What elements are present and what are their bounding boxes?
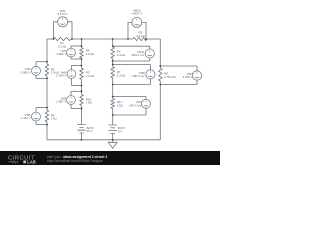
svg-text:3.878 V: 3.878 V bbox=[183, 75, 193, 79]
wire top rail bbox=[47, 38, 160, 40]
resistor R11 bbox=[111, 99, 124, 109]
svg-text:2.2 kΩ: 2.2 kΩ bbox=[136, 34, 145, 38]
voltmeter VM4 bbox=[160, 66, 201, 85]
svg-text:1 kΩ: 1 kΩ bbox=[51, 117, 58, 121]
junction top rail / VM10 left bbox=[127, 38, 129, 40]
svg-text:-2.887 V: -2.887 V bbox=[55, 100, 66, 104]
footer logo CircuitLab bbox=[8, 155, 36, 164]
resistor R10 bbox=[80, 95, 93, 106]
junction column A / VM9 top bbox=[81, 90, 83, 92]
junction column B / VM3 top bbox=[112, 96, 114, 98]
resistor R5 bbox=[45, 64, 60, 76]
junction left rail / VM2 top bbox=[46, 61, 48, 63]
voltmeter VM11 bbox=[113, 46, 155, 61]
svg-text:LAB: LAB bbox=[27, 159, 36, 164]
junction top rail / column B bbox=[112, 38, 114, 40]
resistor R2 bbox=[133, 31, 147, 41]
junction column A / VM9 bottom bbox=[81, 108, 83, 110]
svg-text:-4.897 V: -4.897 V bbox=[131, 12, 142, 16]
voltmeter VM6 bbox=[55, 66, 81, 86]
svg-text:9 V: 9 V bbox=[118, 129, 122, 133]
junction bottom rail / ground bbox=[112, 139, 114, 141]
svg-text:2.2 kΩ: 2.2 kΩ bbox=[86, 74, 95, 78]
junction top rail / column A bbox=[81, 38, 83, 40]
svg-text:2.751 kΩ: 2.751 kΩ bbox=[164, 75, 176, 79]
svg-text:1 kΩ: 1 kΩ bbox=[86, 101, 93, 105]
wire bottom rail bbox=[47, 139, 160, 141]
svg-text:-843.4 mV: -843.4 mV bbox=[131, 53, 144, 57]
voltmeter VM8 bbox=[113, 64, 155, 84]
resistor R9 bbox=[45, 110, 57, 122]
junction top rail / VM10 right bbox=[145, 38, 147, 40]
junction column B / VM11 bottom bbox=[112, 60, 114, 62]
svg-text:1.9 kΩ: 1.9 kΩ bbox=[117, 53, 126, 57]
svg-text:2.2 kΩ: 2.2 kΩ bbox=[58, 44, 67, 48]
svg-text:1 kΩ: 1 kΩ bbox=[117, 103, 124, 107]
junction column A / VM6 top bbox=[81, 65, 83, 67]
junction bottom rail / BAT3 bbox=[81, 139, 83, 141]
voltmeter VM2 bbox=[21, 62, 47, 79]
wire column A branch bbox=[81, 39, 83, 140]
junction left rail / VM5 top bbox=[46, 107, 48, 109]
junction top rail / VM1 right bbox=[71, 38, 73, 40]
junction top rail / VM1 left bbox=[53, 38, 55, 40]
junction column A / VM7 bottom bbox=[81, 58, 83, 60]
svg-text:1.442 V: 1.442 V bbox=[21, 116, 31, 120]
ground bbox=[108, 140, 117, 149]
battery BAT4 bbox=[109, 125, 126, 135]
voltmeter VM5 bbox=[21, 108, 47, 125]
svg-text:-4.802 V: -4.802 V bbox=[55, 52, 66, 56]
voltmeter VM10 bbox=[128, 8, 146, 39]
svg-text:http://circuitlab.com/c95icfv7: http://circuitlab.com/c95icfv7wqqua bbox=[47, 159, 103, 163]
svg-text:1.9 kΩ: 1.9 kΩ bbox=[86, 52, 95, 56]
svg-text:-0.634 V: -0.634 V bbox=[55, 74, 66, 78]
junction column B / VM8 bottom bbox=[112, 84, 114, 86]
voltmeter VM1 bbox=[54, 9, 73, 39]
voltmeter VM7 bbox=[55, 46, 81, 59]
wire right rail bbox=[159, 39, 161, 140]
resistor R1 bbox=[53, 37, 71, 48]
resistor R8 bbox=[159, 68, 177, 81]
voltmeter VM9 bbox=[55, 91, 81, 108]
resistor R7 bbox=[111, 67, 126, 79]
footer text bbox=[47, 155, 107, 163]
svg-text:2.2 kΩ: 2.2 kΩ bbox=[117, 73, 126, 77]
junction column A / VM7 top bbox=[81, 45, 83, 47]
footer bar bbox=[0, 151, 220, 165]
wire left rail bbox=[46, 39, 48, 140]
junction column B / VM11 top bbox=[112, 45, 114, 47]
svg-text:20 V: 20 V bbox=[87, 129, 93, 133]
resistor R3 bbox=[80, 68, 95, 80]
resistor R6 bbox=[80, 48, 95, 59]
junction column B / VM8 top bbox=[112, 64, 114, 66]
junction right rail / VM4 bottom bbox=[159, 84, 161, 86]
svg-text:2.086 V: 2.086 V bbox=[21, 70, 31, 74]
battery BAT3 bbox=[77, 124, 94, 135]
wire column B branch bbox=[112, 39, 114, 140]
junction right rail / VM4 top bbox=[159, 65, 161, 67]
svg-text:-786.4 mV: -786.4 mV bbox=[131, 74, 144, 78]
junction left rail / VM5 bottom bbox=[46, 124, 48, 126]
junction left rail / VM2 bottom bbox=[46, 78, 48, 80]
svg-text:5.173 V: 5.173 V bbox=[58, 12, 68, 16]
svg-text:-287.4 mV: -287.4 mV bbox=[128, 103, 141, 107]
resistor R4 bbox=[111, 47, 126, 59]
junction column B / VM3 bottom bbox=[112, 114, 114, 116]
voltmeter VM3 bbox=[113, 97, 151, 116]
junction column A / VM6 bottom bbox=[81, 85, 83, 87]
